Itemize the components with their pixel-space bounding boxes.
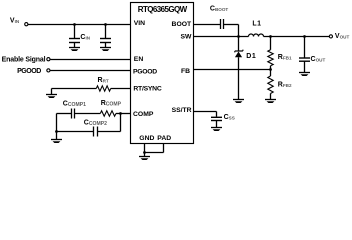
wire SS/TR [194,112,217,117]
node VIN input terminal [25,23,28,26]
wire EN [50,59,130,61]
svg-text:PGOOD: PGOOD [17,68,41,75]
node FB junction [269,68,272,71]
svg-text:FB: FB [181,68,190,75]
wire VIN input rail [28,24,131,26]
svg-text:D1: D1 [246,53,256,60]
svg-text:BOOT: BOOT [172,21,192,28]
svg-text:CBOOT: CBOOT [210,6,229,13]
diode D1 [235,50,243,100]
svg-text:SS/TR: SS/TR [172,107,192,114]
ground RFB2 [265,100,276,104]
svg-text:CCOMP1: CCOMP1 [63,100,86,108]
wire COMP right vertical [120,114,122,132]
svg-text:PAD: PAD [157,135,171,142]
wire L1 to VOUT [264,36,330,38]
capacitor CCOMP2 [94,127,121,137]
svg-text:RRT: RRT [98,77,109,84]
resistor RCOMP [100,111,116,116]
svg-text:CSS: CSS [224,114,235,121]
svg-text:L1: L1 [252,21,261,28]
wire PAD vertical [145,143,164,153]
wire RT/SYNC left segment [52,89,97,95]
node COMP bottom junction [55,130,58,133]
resistor RFB2 [268,70,273,100]
node Enable terminal [47,58,50,61]
node GND PAD junction [143,151,146,154]
capacitor CIN2 [100,23,111,47]
wire BOOT to SW vertical [238,25,240,37]
wire BOOT [194,24,221,26]
inductor L1 [249,34,264,37]
ground GND PAD [139,157,150,161]
wire COMP pin segment [116,112,131,115]
svg-text:RTQ6365GQW: RTQ6365GQW [138,5,188,14]
svg-text:CCOMP2: CCOMP2 [84,120,107,128]
wire FB [194,69,271,71]
capacitor COUT [299,35,310,72]
svg-text:CIN: CIN [80,34,90,41]
svg-text:COUT: COUT [311,56,326,63]
svg-text:EN: EN [134,56,144,63]
node SW junction [237,35,240,38]
ground CIN2 [100,48,111,52]
svg-text:VIN: VIN [10,18,20,25]
ground COUT [299,73,310,77]
capacitor CCOMP1 [72,109,101,119]
capacitor CIN1 [69,23,80,47]
wire PGOOD [50,70,130,72]
svg-text:SW: SW [180,33,192,40]
wire RT/SYNC right segment [111,88,131,90]
node PGOOD terminal [47,69,50,72]
svg-text:RCOMP: RCOMP [101,100,122,108]
resistor RRT [96,86,110,91]
svg-text:Enable Signal: Enable Signal [2,57,46,64]
diode D1 cathode lead [238,37,240,52]
wire COMP bottom branch left [57,131,94,133]
wire COMP left vertical [56,114,58,140]
ground CSS [211,128,222,132]
ground RRT [46,95,57,99]
wire SW [194,36,249,38]
svg-text:VOUT: VOUT [335,33,350,40]
svg-text:VIN: VIN [134,20,145,27]
svg-text:RFB1: RFB1 [278,54,292,61]
node L1 output junction [269,35,272,38]
svg-text:PGOOD: PGOOD [133,69,157,76]
ground CIN1 [69,48,80,52]
svg-text:RT/SYNC: RT/SYNC [133,86,161,93]
node VOUT terminal [329,35,332,38]
capacitor CBOOT [221,19,239,29]
svg-text:COMP: COMP [133,111,154,118]
svg-text:GND: GND [139,135,154,142]
wire GND pad vertical [144,143,146,156]
capacitor CSS [211,117,222,127]
wire COMP top branch left [57,113,72,115]
ground D1 [233,100,244,104]
resistor RFB1 [268,37,273,70]
op-amp U1 IC body RTQ6365GQW [131,3,194,144]
ground COMP network [51,140,62,144]
svg-text:RFB2: RFB2 [278,81,292,88]
